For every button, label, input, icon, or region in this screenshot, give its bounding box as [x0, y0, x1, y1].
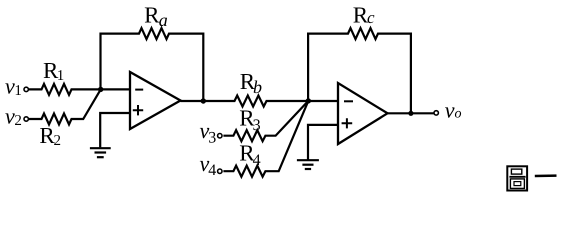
svg-text:v: v: [445, 97, 455, 122]
svg-text:2: 2: [54, 133, 62, 149]
svg-text:o: o: [455, 107, 462, 122]
svg-text:1: 1: [57, 68, 65, 84]
svg-text:c: c: [367, 8, 375, 27]
svg-text:1: 1: [14, 83, 22, 99]
svg-text:R: R: [144, 2, 160, 27]
svg-text:4: 4: [253, 152, 261, 169]
svg-text:2: 2: [14, 113, 22, 129]
svg-text:3: 3: [253, 117, 261, 134]
svg-text:4: 4: [208, 162, 216, 179]
svg-text:3: 3: [208, 130, 216, 147]
svg-text:a: a: [159, 10, 168, 30]
svg-text:b: b: [253, 77, 262, 97]
